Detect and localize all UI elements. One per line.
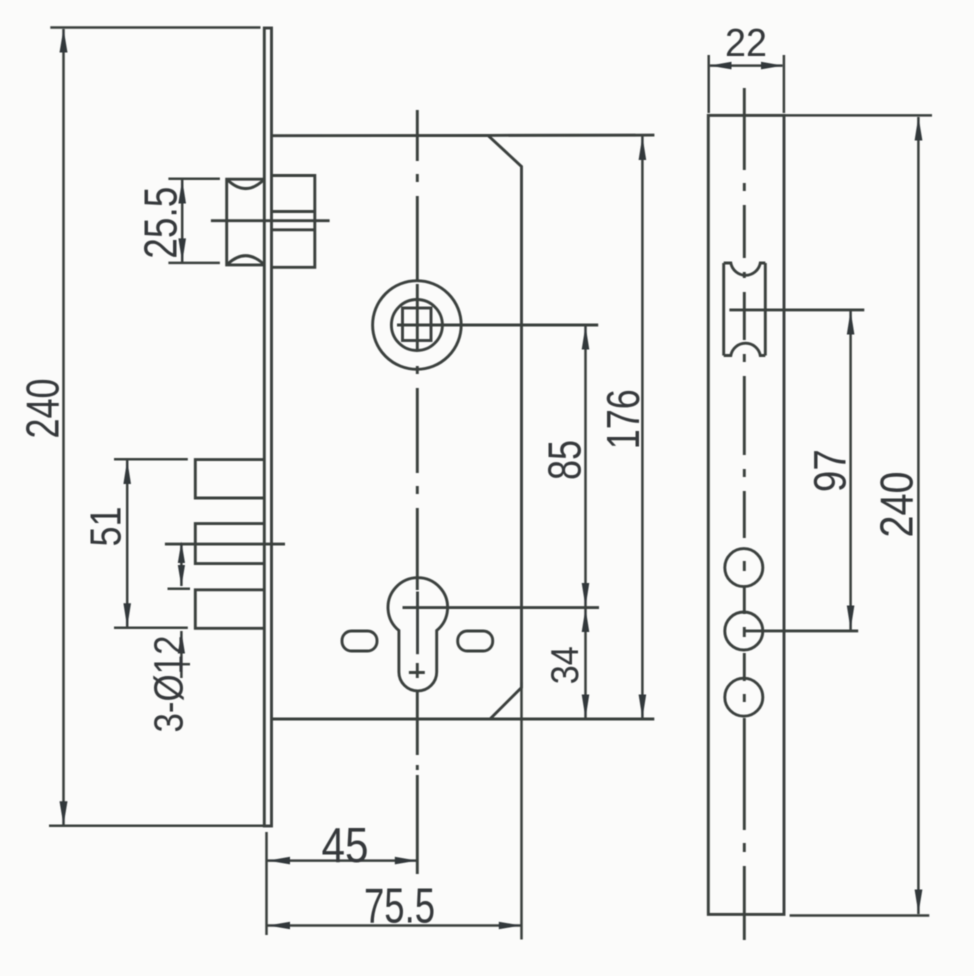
svg-text:176: 176 bbox=[597, 389, 649, 449]
spool horizontal centerline bbox=[729, 308, 864, 311]
body top extension line bbox=[488, 134, 654, 137]
svg-text:34: 34 bbox=[544, 646, 587, 684]
dim 3-012: dimension line upper bbox=[180, 544, 183, 586]
left view vertical centerline bbox=[416, 110, 419, 874]
follower outer circle bbox=[373, 281, 462, 370]
dim 51: dimension line bbox=[126, 461, 129, 627]
prong2 centerline bbox=[165, 543, 285, 546]
dim 3-012: lower stem bbox=[180, 631, 183, 678]
dim 75.5: dimension line bbox=[268, 924, 521, 927]
dim 3-012: tick lower bbox=[174, 663, 190, 666]
dim 97: dimension line bbox=[849, 311, 852, 630]
svg-text:75.5: 75.5 bbox=[364, 880, 435, 934]
svg-text:25.5: 25.5 bbox=[134, 187, 186, 259]
latch head top arc bbox=[228, 180, 264, 188]
follower square hole bbox=[403, 308, 432, 341]
dim 45: dimension line bbox=[268, 859, 417, 862]
dim 240 left: extension bottom bbox=[49, 825, 265, 828]
arrows 51 bbox=[123, 460, 131, 484]
hole circle 3 bbox=[725, 678, 763, 716]
left slot hole bbox=[342, 631, 377, 651]
latch centerline bbox=[211, 219, 330, 222]
dim 22: ext left bbox=[707, 55, 710, 113]
latch tail inner line 1 bbox=[272, 210, 315, 213]
arrows 97 bbox=[847, 311, 855, 335]
hole2 horizontal centerline bbox=[744, 629, 858, 632]
dim 176: dimension line bbox=[641, 137, 644, 719]
arrows 85 bbox=[582, 326, 590, 350]
arrows 25.5 bbox=[178, 180, 186, 204]
svg-text:240: 240 bbox=[16, 379, 68, 439]
lock body outline bbox=[272, 135, 522, 719]
dim 240 right: top extension bbox=[784, 114, 932, 117]
dim 45: left extension bbox=[265, 832, 268, 935]
hole circle 1 bbox=[725, 549, 763, 587]
follower horizontal centerline bbox=[397, 324, 598, 327]
dim 25.5: ext top bbox=[168, 177, 220, 180]
arrows 176 bbox=[639, 136, 647, 160]
deadbolt prong 1 bbox=[195, 460, 264, 498]
dim 240 left: extension top bbox=[50, 26, 260, 29]
body bottom extension line bbox=[490, 718, 654, 721]
dim 25.5: dimension line bbox=[181, 180, 184, 262]
dim 240 right: dimension line bbox=[917, 117, 920, 914]
cylinder plus mark horizontal bbox=[409, 671, 425, 674]
spool top edge and arc bbox=[724, 263, 766, 275]
deadbolt prong 2 bbox=[195, 524, 264, 564]
arrows 34 bbox=[582, 608, 590, 632]
euro cylinder keyhole bbox=[388, 578, 448, 691]
arrows 240 left bbox=[60, 29, 68, 53]
svg-text:51: 51 bbox=[82, 507, 131, 547]
dim 22: ext right bbox=[783, 55, 786, 113]
latch head bottom arc bbox=[228, 256, 264, 264]
svg-text:97: 97 bbox=[805, 449, 856, 492]
dim 75.5: right extension bbox=[520, 682, 523, 940]
arrows 75.5 bbox=[268, 922, 290, 930]
svg-text:240: 240 bbox=[871, 472, 923, 538]
latch tail inner line 2 bbox=[272, 228, 315, 231]
follower inner circle bbox=[391, 300, 442, 351]
cylinder horizontal centerline bbox=[403, 606, 600, 609]
dim 240 left: dimension line bbox=[62, 29, 65, 825]
dim 3-012: tick at prong3 top bbox=[168, 588, 191, 591]
latch bolt head bbox=[227, 179, 265, 265]
dim 85-34: dimension line bbox=[584, 326, 587, 718]
dim 22: dimension line bbox=[710, 64, 783, 67]
faceplate front view bbox=[264, 28, 271, 826]
right slot hole bbox=[458, 631, 493, 651]
spool bottom edge and arc bbox=[724, 343, 766, 355]
arrows 240 right bbox=[915, 117, 923, 141]
roller spool right edge bbox=[764, 263, 767, 356]
latch tail in body bbox=[272, 176, 315, 268]
hole circle 2 bbox=[725, 612, 763, 650]
arrows 22 bbox=[710, 62, 732, 70]
dim 51: ext ticks bbox=[114, 458, 188, 461]
dim 25.5: ext bottom bbox=[168, 262, 220, 265]
cylinder vertical center segment bbox=[416, 592, 419, 655]
arrows 45 bbox=[268, 857, 290, 865]
svg-text:3-Ø12: 3-Ø12 bbox=[146, 636, 192, 733]
right view plate bbox=[708, 115, 784, 914]
arrows 3-012 bbox=[178, 542, 185, 564]
cylinder plus mark vertical bbox=[416, 663, 419, 678]
svg-text:85: 85 bbox=[539, 440, 591, 480]
right view vertical centerline bbox=[743, 88, 746, 940]
roller spool left edge bbox=[722, 263, 725, 356]
deadbolt prong 3 bbox=[195, 590, 264, 629]
dim 240 right: bottom extension bbox=[790, 914, 930, 917]
svg-text:22: 22 bbox=[725, 22, 767, 65]
svg-text:45: 45 bbox=[322, 819, 369, 873]
